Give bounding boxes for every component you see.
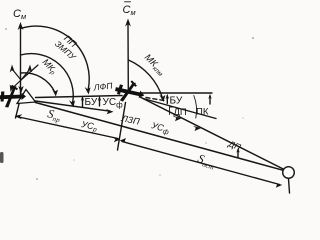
- svg-text:Cм: Cм: [13, 8, 26, 21]
- north line N2 at aircraft 2: [127, 23, 129, 90]
- svg-text:Cм: Cм: [123, 4, 136, 17]
- LFP line (actual track) from departure to aircraft 2: [36, 96, 123, 98]
- wind/speed vector star above departure point: [10, 65, 38, 94]
- dashed heading continuation from aircraft 2: [146, 98, 164, 101]
- svg-text:УСф: УСф: [103, 97, 124, 110]
- svg-text:ДП: ДП: [226, 138, 243, 152]
- svg-text:ЛФП: ЛФП: [92, 80, 114, 92]
- north arrowhead N1: [18, 22, 24, 30]
- svg-text:МКкпм: МКкпм: [141, 52, 167, 78]
- svg-text:МКр: МКр: [39, 57, 59, 77]
- scan speck bottom left: [0, 152, 4, 163]
- aircraft 2 silhouette on LFP: [113, 77, 147, 106]
- mid arrow line from triangle toward LZP tick: [36, 101, 111, 111]
- small up arrow between boxes: [99, 98, 101, 106]
- label Cm right with overbar: [125, 1, 131, 3]
- MK_kpm heading/track line to destination: [140, 97, 283, 169]
- horizontal reference line from aircraft 2: [140, 92, 212, 94]
- arrowheads on MK_kpm line: [173, 116, 181, 121]
- svg-text:Sост: Sост: [196, 151, 218, 171]
- aircraft 1 silhouette at departure: [0, 85, 26, 108]
- S_ost dimension line: [122, 142, 280, 185]
- extension line below circle: [289, 179, 290, 193]
- extension line below aircraft 2: [118, 103, 126, 151]
- small up arrow left of BU box: [82, 98, 84, 107]
- departure point triangle (IPM): [17, 90, 36, 104]
- svg-text:БУ: БУ: [85, 97, 98, 108]
- arc ZMPU (given magnetic track angle): [21, 54, 74, 104]
- LZP line (given track) from departure to destination circle: [36, 103, 283, 171]
- svg-text:ДП: ДП: [174, 107, 187, 118]
- arc MKr (calculated magnetic course): [21, 73, 56, 93]
- short line parallel to LZP from aircraft 2: [143, 99, 216, 119]
- S_pr extension drop line below triangle: [16, 104, 20, 118]
- arc PP (outer): [21, 26, 90, 90]
- svg-text:ПК: ПК: [196, 107, 209, 118]
- DP angle arrow near destination: [237, 150, 239, 157]
- svg-text:БУ: БУ: [170, 96, 183, 107]
- BU angle arrow left: [166, 96, 168, 104]
- north line N1 (Cm) at departure point: [20, 26, 22, 95]
- bracket + label DP near aircraft 2: [170, 107, 174, 115]
- S_pr dimension line: [17, 117, 119, 139]
- PK angle tick arc: [194, 96, 197, 119]
- BU angle arrow right: [209, 96, 211, 104]
- arc MK_kpm at aircraft 2: [129, 60, 163, 98]
- destination circle KPM: [283, 167, 295, 179]
- faint scan specks: [5, 28, 254, 180]
